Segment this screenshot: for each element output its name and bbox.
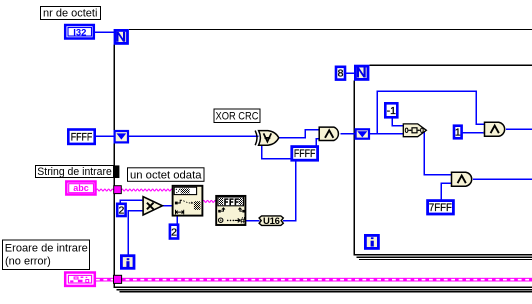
multiply node [143, 197, 162, 215]
tunnel (string) on loop border [114, 186, 122, 194]
label XOR CRC [214, 109, 260, 123]
constant 1 [454, 126, 462, 139]
outer for loop border [114, 30, 532, 292]
black block right of String de intrare label [114, 165, 120, 178]
svg-text:1: 1 [455, 127, 461, 139]
svg-text:XOR CRC: XOR CRC [216, 111, 259, 123]
svg-text:7FFF: 7FFF [429, 202, 452, 214]
shift register left (inner loop) [356, 129, 369, 138]
wire AND3 out to right edge [506, 128, 532, 130]
i terminal outer loop [121, 256, 134, 269]
coercion dot AND3 [483, 131, 486, 134]
svg-text:(no error): (no error) [5, 256, 51, 268]
svg-text:-1: -1 [387, 105, 396, 117]
constant FFFF (init) [68, 130, 94, 144]
constant 8 [336, 67, 345, 80]
constant -1 [385, 103, 397, 117]
svg-text:String de intrare: String de intrare [37, 166, 112, 178]
wire I32 to N [95, 32, 532, 254]
label nr de octeti [41, 7, 101, 20]
wire AND1 out to inner shift register [341, 133, 355, 135]
wire FFFF2 to AND1 lower input [316, 139, 319, 146]
svg-text:I32: I32 [73, 27, 86, 38]
coercion arrow multiply [142, 197, 145, 202]
wire i up to multiply lower input [128, 211, 143, 255]
AND gate 1 [319, 127, 338, 140]
constant 2 (below string subset) [170, 225, 178, 239]
svg-text:FFFF: FFFF [71, 131, 93, 143]
wire 8 to inner N [346, 72, 355, 74]
constant FFFF (mask) [292, 147, 318, 161]
string wire tunnel to string subset [121, 189, 172, 191]
svg-text:U16: U16 [263, 216, 280, 227]
wire multiply out to string subset [163, 205, 173, 207]
svg-text:FFFF: FFFF [294, 148, 316, 160]
svg-text:#: # [240, 216, 245, 226]
svg-text:abc: abc [73, 183, 89, 193]
N terminal inner loop [355, 66, 368, 79]
svg-text:2: 2 [171, 226, 177, 238]
rotate node [403, 124, 426, 137]
inner for loop border [354, 65, 532, 259]
terminal error cluster [65, 273, 95, 286]
string wire abc to tunnel [96, 189, 113, 191]
svg-text:8: 8 [338, 68, 344, 80]
svg-text:Eroare de intrare: Eroare de intrare [5, 243, 88, 255]
wire 7FFF up to AND4 lower input [441, 183, 451, 199]
AND gate 3 (top right) [485, 122, 505, 136]
constant 2 (left) [117, 204, 125, 217]
i terminal inner loop [365, 235, 378, 248]
wire rotate out down to AND4 [424, 132, 451, 175]
wire branch up over to AND3 top input [377, 91, 484, 134]
string subset node [173, 186, 203, 216]
N terminal outer loop [115, 30, 128, 43]
XOR gate [255, 131, 279, 146]
wire U16 up to XOR lower input [262, 145, 296, 220]
wire -1 to rotate node [392, 118, 403, 126]
tunnel (error) on loop border [114, 275, 122, 283]
wire FFF node to U16 [246, 220, 260, 222]
shift register left (outer loop) [115, 131, 128, 142]
U16 conversion node [259, 216, 283, 227]
FFF hex-string-to-number node [216, 196, 245, 226]
terminal I32 (nr de octeti) [65, 25, 94, 39]
error wire [96, 278, 532, 282]
wire AND4 out to right edge [473, 178, 532, 180]
label un octet odata [128, 168, 205, 182]
terminal abc (String de intrare) [66, 182, 95, 195]
string wire string subset to FFF node [203, 200, 216, 202]
wire shift register to XOR gate [129, 135, 259, 137]
wire 2 to multiply top input [120, 200, 143, 202]
wire XOR out to AND1 [278, 130, 319, 138]
wire FFFF to shift register [96, 135, 115, 137]
wire inner shift register to rotate node [370, 133, 404, 135]
wire 1 to AND3 [462, 132, 484, 134]
label Eroare de intrare (no error) [3, 240, 90, 270]
svg-text:2: 2 [118, 205, 124, 217]
wire 2b up to string subset [176, 216, 178, 224]
AND gate 4 (bottom right) [452, 172, 472, 186]
svg-text:nr de octeti: nr de octeti [43, 7, 97, 19]
constant 7FFF [428, 201, 454, 214]
svg-text:un octet odata: un octet odata [130, 170, 202, 182]
label String de intrare [36, 166, 114, 179]
